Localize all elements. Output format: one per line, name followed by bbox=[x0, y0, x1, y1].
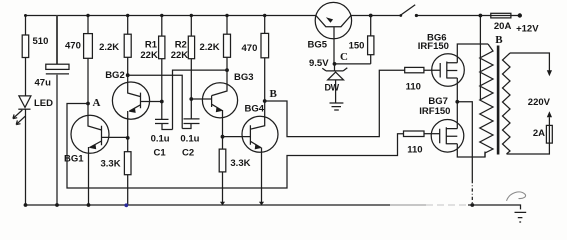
node B bbox=[263, 99, 267, 103]
transformer secondary winding bbox=[503, 53, 511, 154]
svg-text:3.3K: 3.3K bbox=[101, 159, 121, 170]
wire BG2 emitter to BG1 base junction bbox=[127, 119, 129, 152]
resistor 3.3K (right) bbox=[219, 149, 226, 172]
svg-text:+12V: +12V bbox=[516, 24, 539, 35]
wire BG6 source / BG7 drain bbox=[456, 78, 458, 129]
transistor BG5 bbox=[315, 2, 351, 38]
svg-text:470: 470 bbox=[65, 41, 81, 52]
wire junction to dashed ground drop bbox=[457, 102, 472, 180]
resistor 150 bbox=[369, 14, 373, 18]
capacitor C2 0.1u bbox=[184, 119, 200, 124]
wire node B to gate resistor of BG6 bbox=[265, 70, 405, 136]
node BG2 collector junction bbox=[126, 73, 130, 77]
wire BG4 emitter to rail bbox=[261, 152, 263, 205]
resistor 110 (BG7 gate) bbox=[404, 131, 425, 137]
resistor 2.2K (first) bbox=[127, 16, 129, 35]
svg-text:47u: 47u bbox=[35, 78, 52, 89]
junction dots on ground rail bbox=[24, 203, 28, 207]
svg-text:2.2K: 2.2K bbox=[200, 42, 220, 53]
svg-text:B: B bbox=[495, 34, 503, 46]
resistor 470 (left) bbox=[87, 16, 89, 34]
mosfet BG7 IRF150 bbox=[431, 120, 464, 153]
switch S bbox=[399, 14, 402, 17]
svg-text:R2: R2 bbox=[175, 40, 187, 51]
svg-text:IRF150: IRF150 bbox=[418, 41, 449, 52]
ground (zener) bbox=[330, 103, 344, 110]
terminal +12V bbox=[518, 13, 522, 17]
svg-text:BG3: BG3 bbox=[234, 72, 254, 83]
wire bottom ground rail bbox=[26, 204, 391, 206]
wire BG5 base to node C bbox=[333, 39, 335, 64]
wire fuse to secondary bottom bbox=[507, 143, 550, 154]
svg-text:22K: 22K bbox=[140, 50, 158, 61]
svg-text:BG2: BG2 bbox=[105, 70, 125, 81]
svg-text:C1: C1 bbox=[154, 148, 167, 159]
transistor BG1 bbox=[71, 115, 109, 153]
wire node A to gate resistor of BG7 bbox=[67, 104, 404, 189]
output arrow top bbox=[547, 70, 552, 76]
chassis ground bbox=[515, 212, 527, 222]
output arrow bottom bbox=[547, 111, 552, 117]
svg-text:C: C bbox=[340, 51, 348, 63]
node C bbox=[333, 62, 337, 66]
transistor BG2 bbox=[112, 82, 149, 119]
LED D1 bbox=[19, 96, 31, 108]
svg-text:LED: LED bbox=[34, 98, 53, 109]
wire BG1 emitter to rail bbox=[88, 153, 90, 205]
svg-text:3.3K: 3.3K bbox=[230, 158, 250, 169]
zener diode DW 9.5V bbox=[334, 64, 336, 71]
node BG2 base junction bbox=[160, 100, 164, 104]
fuse 20A bbox=[491, 13, 511, 18]
wire top rail bbox=[26, 15, 520, 17]
resistor 510 bbox=[25, 16, 27, 36]
transistor BG4 bbox=[242, 116, 278, 152]
svg-text:110: 110 bbox=[407, 145, 422, 156]
wire BG6 drain to transformer primary top bbox=[457, 44, 488, 63]
svg-text:0.1u: 0.1u bbox=[180, 134, 199, 145]
wire BG3 emitter to junction bbox=[222, 118, 224, 149]
svg-text:22K: 22K bbox=[171, 50, 189, 61]
svg-text:110: 110 bbox=[406, 82, 421, 93]
capacitor 47u bbox=[56, 16, 58, 65]
svg-text:BG5: BG5 bbox=[308, 40, 328, 51]
resistor 2.2K (second) bbox=[226, 16, 228, 35]
transformer B primary winding bbox=[480, 44, 493, 157]
svg-text:C2: C2 bbox=[182, 148, 194, 159]
svg-text:A: A bbox=[93, 97, 101, 109]
mosfet BG6 IRF150 bbox=[432, 54, 465, 87]
svg-text:20A: 20A bbox=[494, 21, 512, 32]
transformer core bbox=[497, 46, 500, 155]
wire C1 bottom to BG3 collector bbox=[173, 70, 228, 129]
svg-text:220V: 220V bbox=[528, 97, 551, 108]
node A bbox=[86, 102, 90, 106]
svg-text:150: 150 bbox=[349, 41, 365, 52]
resistor R2 22K bbox=[190, 16, 192, 37]
svg-text:0.1u: 0.1u bbox=[151, 134, 170, 145]
resistor 110 (BG6 gate) bbox=[405, 67, 424, 72]
transistor BG3 bbox=[202, 83, 237, 118]
wire LED to ground rail bbox=[25, 109, 27, 205]
wire +12V to primary centre tap bbox=[479, 16, 481, 101]
svg-text:B: B bbox=[270, 88, 278, 100]
svg-text:510: 510 bbox=[33, 36, 49, 47]
fuse 2A bbox=[548, 117, 550, 125]
svg-text:9.5V: 9.5V bbox=[309, 58, 329, 69]
node BG3 base junction bbox=[189, 97, 193, 101]
svg-text:2A: 2A bbox=[533, 128, 545, 139]
wire secondary top to output bbox=[510, 53, 549, 71]
svg-text:IRF150: IRF150 bbox=[419, 106, 450, 117]
resistor 470 (second) bbox=[264, 16, 266, 34]
resistor R1 22K bbox=[161, 16, 163, 37]
svg-text:DW: DW bbox=[325, 83, 340, 93]
svg-text:BG4: BG4 bbox=[245, 104, 265, 115]
resistor 3.3K (left) bbox=[124, 152, 131, 175]
junction dots on top rail bbox=[24, 14, 27, 17]
svg-text:R1: R1 bbox=[145, 40, 158, 51]
wire C2 bottom to BG2 collector bbox=[128, 75, 183, 128]
capacitor C1 0.1u bbox=[155, 119, 169, 123]
wire BG7 source to transformer primary bottom bbox=[457, 144, 485, 157]
svg-text:2.2K: 2.2K bbox=[99, 42, 119, 53]
svg-text:470: 470 bbox=[242, 43, 258, 54]
